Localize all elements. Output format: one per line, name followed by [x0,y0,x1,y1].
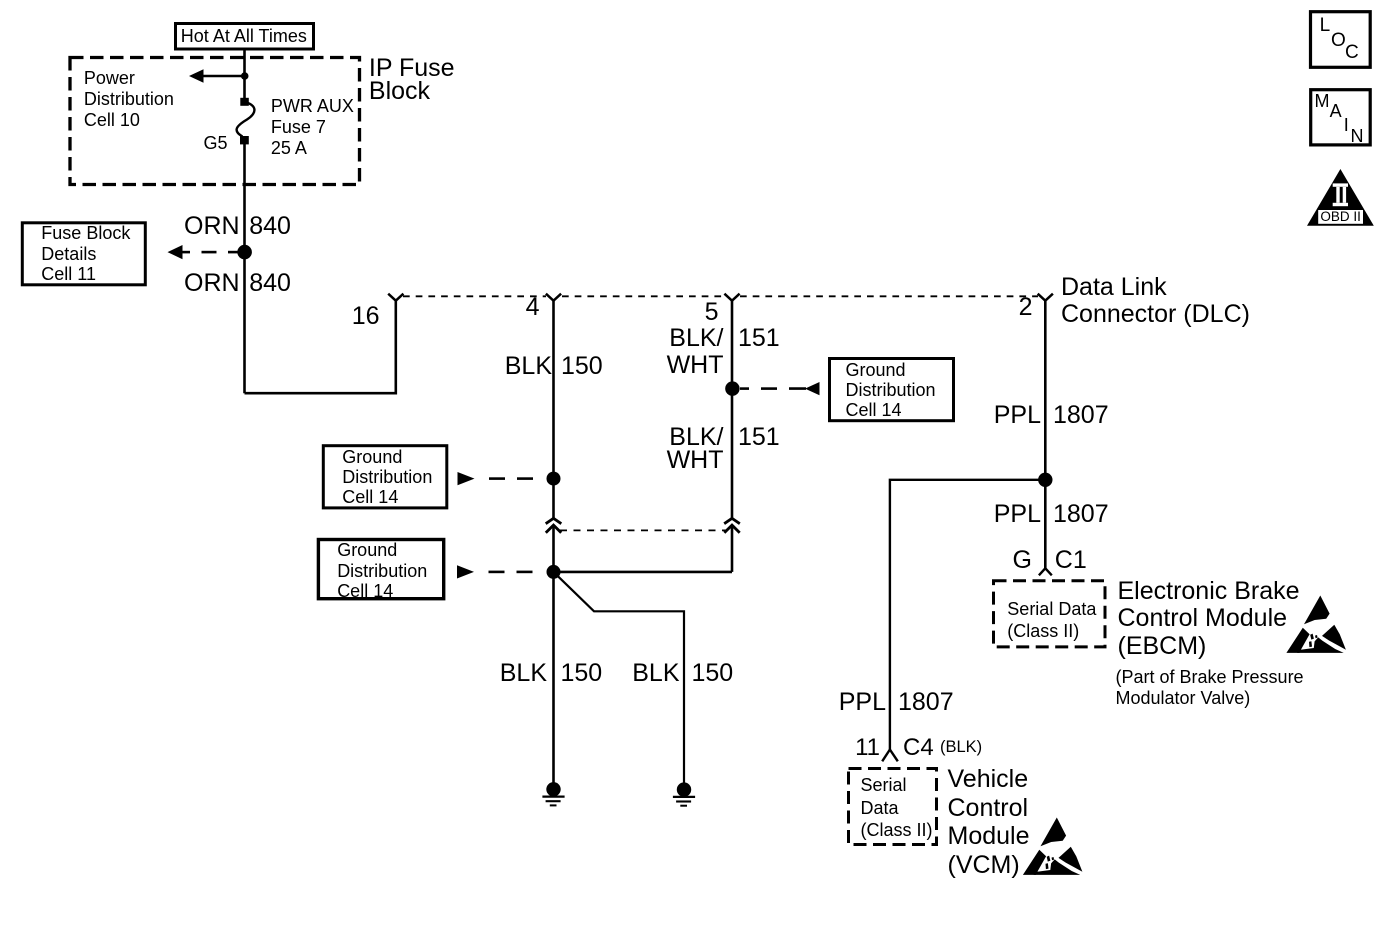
LOC page icon box [1311,12,1371,68]
pin G of connector C1 [1039,568,1052,575]
label MAIN icon letters [1315,92,1330,110]
label BLK 150 pin4 [505,354,552,379]
ground distribution cell14 box lower-left [318,540,443,599]
label Hot At All Times [181,27,307,45]
label BLK/WHT 151 lower [669,425,723,450]
DLC dashed connector line [403,295,1038,297]
label PWR AUX Fuse 7 25 A [271,96,354,159]
wire BLK 150 pin4 upper [552,301,555,518]
DLC pin 2 [1038,294,1053,301]
label IP Fuse Block [369,57,455,103]
label pin 5 [705,300,719,325]
wire to DLC pin 16 [245,300,396,393]
label PPL 1807 upper [994,403,1041,428]
fuse block details box [22,223,145,285]
label Ground Distribution Cell 14 lower-left box [337,540,427,601]
wire pin5 to splice horizontal [554,571,733,574]
junction node pin4 upper [547,472,561,486]
junction node PPL splice [1038,473,1052,487]
ground distribution cell14 box right [830,359,954,421]
label Power Distribution Cell 10 [84,68,174,131]
hot-at-all-times box [176,24,314,50]
serial data class II dashed box EBCM [994,581,1106,647]
label Serial Data (Class II) EBCM [1007,598,1096,642]
label connector C1 [1055,548,1087,573]
pin 11 of connector C4 [882,750,898,762]
inline connector chevrons pin4 [546,518,562,533]
label pin 4 [526,295,540,320]
DLC pin 4 [546,294,561,301]
label Data Link Connector (DLC) [1061,274,1250,328]
label pin 11 [855,736,880,760]
label Ground Distribution Cell 14 upper-left box [342,447,432,508]
wire splice to second ground diagonal [554,572,685,790]
dashed arrow from Ground Distribution (upper) [458,472,534,485]
label Fuse Block Details Cell 11 [41,223,130,284]
IP fuse block dashed box [70,58,360,185]
label OBD II [1318,210,1363,224]
wire ORN 840 from fuse to junction and down [243,143,246,393]
ground G1 left [542,782,564,805]
wire from Hot At All Times down to fuse [243,50,246,98]
OBD II triangle icon [1307,169,1374,226]
label BLK/WHT 151 upper [669,326,723,351]
label PPL 1807 middle [994,502,1041,527]
dashed arrow to Fuse Block Details [168,245,239,259]
label ORN 840 lower [184,271,240,296]
label Part of Brake Pressure Modulator Valve [1116,667,1304,709]
wire BLK/WHT 151 pin5 vertical [731,301,734,572]
dashed arrow from Ground Distribution (lower) [457,565,533,578]
wire PPL 1807 pin2 vertical [1044,301,1047,569]
label pin G [1013,548,1032,573]
label pin 16 [352,304,380,329]
junction node G103 splice [547,565,561,579]
label PPL 1807 VCM branch [839,690,886,715]
serial data class II dashed box VCM [849,769,937,845]
wire BLK 150 pin4 lower to ground [552,525,555,789]
label G5 [203,134,227,152]
ground G2 right [673,782,695,805]
label BLK 150 bottom-left [500,661,547,686]
fuse F7 PWR AUX [237,98,255,145]
label LOC icon letters [1320,16,1331,35]
label pin 2 [1019,295,1033,320]
DLC pin 16 [388,294,403,301]
label Vehicle Control Module (VCM) [948,765,1030,879]
inline connector chevrons pin5 [724,518,740,533]
label Ground Distribution Cell 14 right box [846,360,936,421]
label Electronic Brake Control Module (EBCM) [1118,578,1300,660]
label connector C4 [903,736,934,760]
dashed harness line between inline connectors [560,529,726,531]
label BLK 150 bottom-right [632,661,679,686]
ESD symbol VCM [1023,818,1083,875]
junction node ORN 840 [237,245,252,260]
DLC pin 5 [724,294,739,301]
junction node pin5 [725,381,739,395]
label Serial Data (Class II) VCM [861,774,933,841]
wire arrow to Power Distribution [189,69,249,82]
dashed arrow to Ground Distribution (right) [740,382,820,395]
label ORN 840 upper [184,214,240,239]
wire PPL splice to VCM branch [890,480,1045,750]
MAIN page icon box [1311,90,1371,145]
label (BLK) [940,739,982,756]
ESD symbol EBCM [1286,596,1346,653]
ground distribution cell14 box upper-left [323,446,447,508]
